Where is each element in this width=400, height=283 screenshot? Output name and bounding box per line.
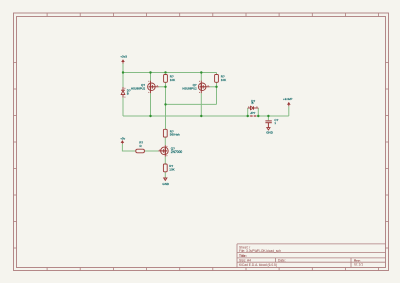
ground GND (under C1) [267, 128, 270, 130]
svg-text:2N7000: 2N7000 [171, 150, 183, 154]
resistor R4 560-ish [163, 129, 167, 137]
svg-text:10K: 10K [221, 78, 226, 82]
node diode left leg rail [247, 115, 249, 117]
wire PMOS1 source top [150, 73, 152, 81]
node PMOS1 gate [164, 86, 166, 88]
wire +5v down and right [122, 144, 135, 151]
node PMOS1 drain rail [149, 115, 151, 117]
wire gate link vertical left [165, 87, 167, 105]
wire diode D1 to lower rail [122, 97, 124, 116]
wire top rail [123, 72, 217, 74]
power +3.3vP [287, 102, 291, 106]
node +3v3 rail tee [122, 71, 124, 73]
svg-text:Title:: Title: [239, 254, 247, 258]
junction dots [122, 71, 270, 117]
title block text [239, 245, 363, 267]
wire R2 pulldown stub [216, 73, 218, 75]
wire diode D2 left leg [247, 108, 249, 116]
transistor Q1 PMOS [148, 81, 159, 94]
svg-text:JP?: JP? [250, 111, 256, 115]
svg-text:Q?: Q? [141, 83, 145, 87]
capacitor C1 [265, 121, 271, 128]
svg-text:B: B [127, 92, 129, 96]
svg-text:+3v3: +3v3 [120, 55, 127, 59]
pin numbers (tiny) [124, 81, 257, 156]
wire gate link vertical right [216, 87, 218, 105]
svg-text:Size: A4: Size: A4 [239, 259, 251, 263]
svg-text:+3.3vP: +3.3vP [283, 97, 292, 101]
wire R560 to Q3 drain [164, 137, 166, 145]
node R1 top [164, 71, 166, 73]
wire lower rail right of jumper [257, 115, 289, 117]
node cap rail [267, 115, 269, 117]
svg-text:10K: 10K [169, 167, 174, 171]
node diode right leg rail [257, 115, 259, 117]
node PMOS2 source [200, 71, 202, 73]
svg-text:10K: 10K [170, 78, 175, 82]
resistor R1 10K [164, 75, 168, 83]
svg-text:Date:: Date: [278, 259, 286, 263]
node gate link branch [164, 103, 166, 105]
title block [237, 244, 386, 268]
svg-text:File: 3.3vPWR-OK.kicad_sch: File: 3.3vPWR-OK.kicad_sch [239, 249, 281, 253]
svg-text:560-ish: 560-ish [170, 133, 180, 137]
node PMOS2 drain rail [200, 115, 202, 117]
wire R2 bottom to gate junction [216, 82, 218, 87]
wire PMOS2 source top [200, 73, 202, 81]
resistor R5 10K [163, 164, 167, 172]
node PMOS1 source [149, 71, 151, 73]
wire cap C1 stub [267, 116, 269, 120]
svg-text:KiCad E.D.A. kicad (6.0.5): KiCad E.D.A. kicad (6.0.5) [239, 263, 277, 267]
wire R3 to Q3 gate [145, 150, 159, 152]
diode D1 (vertical, cathode up) [121, 87, 125, 98]
wire R5 to GND [164, 172, 166, 178]
resistor R3 (horizontal, gate) [136, 149, 145, 153]
wire +3v3 down to diode D1 [122, 64, 124, 89]
jumper JP1 (solder jumper on rail) [250, 115, 256, 117]
wire PMOS2 gate to R2 column [210, 86, 217, 88]
wire lower rail left of jumper [123, 115, 250, 117]
wire PMOS2 drain down to lower rail [200, 93, 202, 116]
power +5v [121, 140, 125, 144]
wire PMOS1 drain down to lower rail [150, 93, 152, 116]
svg-text:GND: GND [162, 182, 170, 186]
node PMOS2 gate [215, 86, 217, 88]
svg-text:Q?: Q? [193, 83, 197, 87]
wire R1 bottom to gate junction [165, 82, 167, 87]
resistor R2 10K [215, 75, 219, 83]
svg-text:+5v: +5v [120, 137, 125, 141]
wire Q3 source to R5 [164, 157, 166, 164]
transistor Q3 2N7000 [158, 145, 168, 156]
ground GND (under R5) [164, 178, 167, 180]
svg-text:Rev:: Rev: [354, 258, 361, 262]
wire PMOS1 gate to R1 column [159, 86, 166, 88]
wire +3.3vP down [288, 106, 290, 116]
transistor Q2 PMOS [198, 81, 209, 94]
wire diode D2 right leg [257, 108, 259, 116]
diode D2 (horizontal, bypass) [248, 106, 259, 109]
wire gate column down to R560 [165, 104, 167, 129]
svg-text:GND: GND [266, 130, 274, 134]
power +3v3 [121, 59, 125, 63]
wire gate link horizontal [166, 103, 217, 105]
svg-text:Id: 1/1: Id: 1/1 [354, 263, 363, 267]
svg-text:B: B [252, 101, 254, 105]
